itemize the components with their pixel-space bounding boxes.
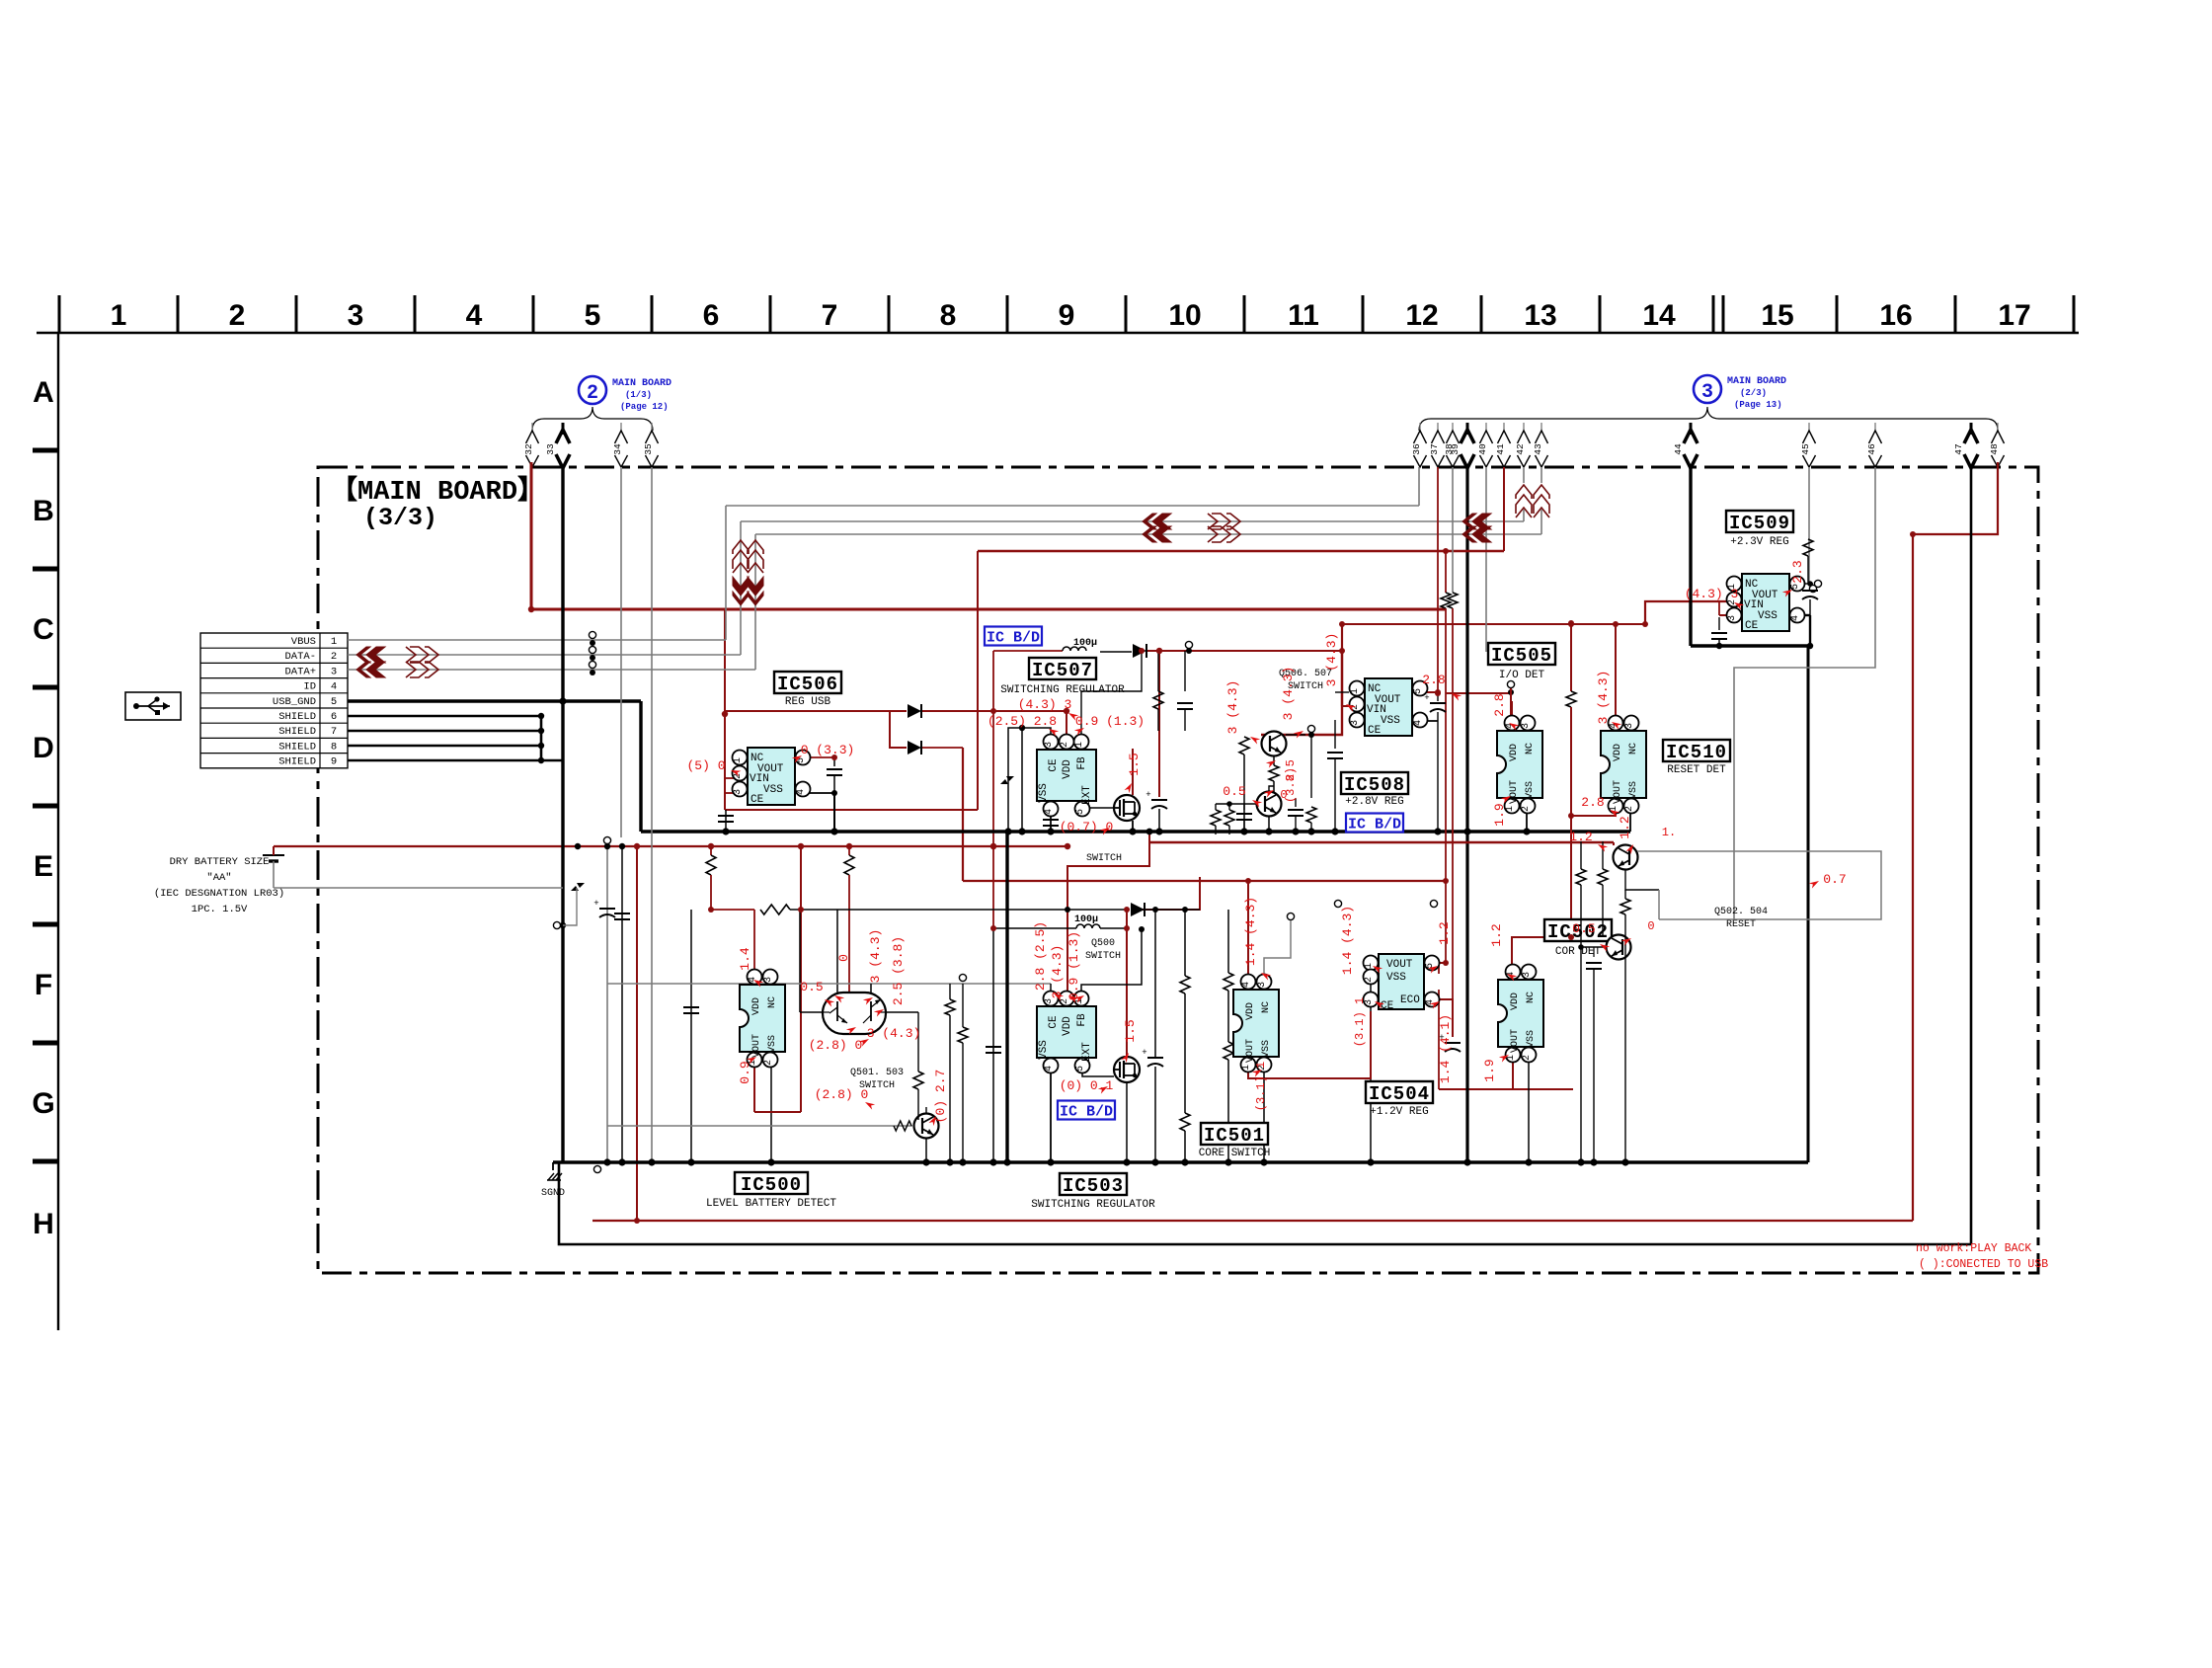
svg-text:CE: CE (1381, 1000, 1394, 1012)
dual transistor Q501/Q503 oval (823, 993, 886, 1034)
wire: red IC500 supply (710, 846, 712, 855)
svg-text:42: 42 (1515, 443, 1526, 455)
svg-text:(3.1) 1: (3.1) 1 (1353, 997, 1367, 1047)
svg-text:VSS: VSS (1758, 610, 1777, 622)
svg-text:VOUT: VOUT (1245, 1039, 1256, 1063)
svg-text:VDD: VDD (1613, 744, 1623, 761)
svg-text:VSS: VSS (1525, 781, 1536, 799)
svg-text:0: 0 (836, 954, 851, 962)
svg-text:CE: CE (750, 794, 764, 806)
svg-text:0.9: 0.9 (738, 1061, 752, 1083)
wire: red Q506 base (1261, 652, 1342, 735)
maroon chevrons DATA rows (366, 647, 385, 663)
svg-text:B: B (33, 495, 54, 527)
IC501 (1233, 990, 1279, 1057)
svg-text:Q501. 503: Q501. 503 (850, 1068, 904, 1078)
svg-text:36: 36 (1411, 443, 1422, 455)
svg-text:1PC. 1.5V: 1PC. 1.5V (192, 904, 248, 915)
wire: red IC504 area (1379, 962, 1446, 964)
svg-text:(3/3): (3/3) (363, 504, 437, 532)
svg-text:VBUS: VBUS (291, 636, 316, 648)
svg-text:Q500: Q500 (1091, 938, 1115, 949)
svg-text:ID: ID (303, 681, 316, 693)
svg-text:E: E (34, 850, 53, 883)
connectors group 3 : 36..48 (1419, 423, 1421, 433)
connectors group 2 : 32..35 (531, 423, 533, 433)
red bus y558 (978, 550, 1504, 552)
svg-text:(3.1) 1: (3.1) 1 (1254, 1062, 1268, 1111)
svg-text:SWITCHING REGULATOR: SWITCHING REGULATOR (1031, 1199, 1155, 1211)
wire: red battery bus (274, 845, 1066, 847)
gray net from IC509 area down (1874, 667, 1876, 669)
svg-text:5: 5 (585, 299, 601, 332)
IC502 (1498, 980, 1543, 1047)
svg-text:2: 2 (587, 382, 598, 405)
maroon chevrons top-center (733, 577, 749, 596)
svg-text:ECO: ECO (1400, 994, 1420, 1006)
svg-text:2: 2 (1521, 806, 1532, 812)
svg-text:8: 8 (331, 741, 337, 753)
svg-text:3: 3 (348, 299, 364, 332)
usb signal rows (348, 639, 726, 641)
conn36..43 stubs (1437, 467, 1439, 693)
gray B-row buses (1418, 467, 1420, 506)
svg-text:VSS: VSS (1038, 783, 1050, 803)
svg-text:1: 1 (1074, 742, 1085, 748)
svg-text:(2.8) 0: (2.8) 0 (815, 1087, 869, 1102)
svg-text:MAIN BOARD: MAIN BOARD (1727, 376, 1786, 387)
svg-text:CE: CE (1048, 758, 1060, 772)
wire: red IC502 area (1512, 937, 1571, 972)
wire: red IC501 area (1247, 881, 1249, 978)
svg-text:3: 3 (331, 666, 337, 677)
maroon chevrons mid-right (1152, 514, 1171, 529)
svg-text:IC510: IC510 (1666, 742, 1727, 763)
wire: 100u inductor line IC507 (1063, 647, 1086, 651)
svg-text:7: 7 (331, 726, 337, 738)
svg-text:VSS: VSS (1038, 1040, 1050, 1060)
page ref 3 (1694, 375, 1721, 403)
svg-text:VSS: VSS (1261, 1040, 1272, 1058)
main board border (318, 467, 2038, 1273)
Q502/Q504 transistors (1614, 845, 1638, 870)
svg-text:2.8: 2.8 (1492, 693, 1507, 716)
svg-text:+: + (1142, 1048, 1146, 1058)
mosfet Q (IC507) (1114, 795, 1140, 821)
svg-text:1: 1 (1364, 963, 1375, 969)
svg-text:C: C (33, 613, 54, 646)
svg-text:CE: CE (1048, 1015, 1060, 1029)
svg-text:7: 7 (822, 299, 838, 332)
svg-text:1.5: 1.5 (1123, 1019, 1138, 1042)
svg-text:(5) 0: (5) 0 (686, 758, 725, 773)
svg-text:VDD: VDD (1509, 744, 1520, 761)
svg-text:IC507: IC507 (1032, 660, 1093, 681)
svg-text:4: 4 (796, 789, 807, 795)
wire: diode at IC507 out (1133, 644, 1146, 658)
svg-text:1.4: 1.4 (738, 947, 752, 971)
thick switch vertical (1005, 832, 1008, 1162)
Q506/Q507 (1239, 737, 1249, 755)
svg-text:VSS: VSS (763, 784, 783, 796)
caps near Q506 top (1157, 651, 1159, 691)
svg-text:16: 16 (1879, 299, 1912, 332)
svg-text:NC: NC (1261, 1001, 1272, 1013)
IC507 pins (1008, 728, 1051, 832)
svg-text:2: 2 (1522, 1055, 1533, 1061)
wire: red right vertical to bottom (1912, 534, 1914, 1221)
svg-text:+2.8V REG: +2.8V REG (1345, 796, 1403, 808)
svg-text:3 (4.3): 3 (4.3) (1225, 680, 1240, 735)
conn34/35 stubs (620, 467, 622, 837)
svg-text:9: 9 (331, 756, 337, 768)
svg-text:F: F (35, 969, 52, 1001)
svg-text:46: 46 (1866, 443, 1877, 455)
IC505 wires (1507, 680, 1514, 687)
svg-text:1.2: 1.2 (1569, 830, 1592, 844)
svg-text:IC505: IC505 (1491, 645, 1552, 667)
y996 row (607, 983, 1051, 985)
wire: +5V red bus from conn32 (531, 462, 1446, 609)
wire: red inductor out / Q500 (992, 651, 994, 928)
svg-text:1.5: 1.5 (1127, 753, 1142, 775)
svg-text:1.: 1. (1662, 826, 1676, 839)
svg-text:2: 2 (1364, 977, 1375, 983)
Q500 net (993, 927, 1076, 929)
IC508 out (1414, 691, 1438, 693)
IC503 (1037, 1006, 1096, 1058)
svg-text:2.8: 2.8 (1581, 795, 1604, 810)
svg-text:CE: CE (1745, 620, 1759, 632)
svg-text:5: 5 (1075, 1066, 1086, 1072)
svg-text:2: 2 (1624, 806, 1635, 812)
IC505 (1497, 731, 1542, 798)
wire: red IC505 supply (1446, 692, 1512, 694)
svg-text:DATA+: DATA+ (284, 666, 316, 677)
svg-text:9: 9 (1059, 299, 1075, 332)
svg-text:CORE SWITCH: CORE SWITCH (1199, 1148, 1271, 1159)
wire: red IC506 VIN riser (724, 678, 726, 810)
IC509 wires (1803, 539, 1813, 556)
svg-text:DATA-: DATA- (284, 651, 316, 663)
gray x1471 riser (1452, 467, 1454, 593)
svg-text:1.2: 1.2 (1618, 816, 1632, 838)
svg-text:SHIELD: SHIELD (278, 756, 316, 768)
svg-text:DRY BATTERY SIZE: DRY BATTERY SIZE (170, 856, 270, 868)
svg-text:VDD: VDD (751, 997, 762, 1015)
svg-text:15: 15 (1761, 299, 1793, 332)
svg-text:3: 3 (1701, 381, 1713, 404)
svg-text:2: 2 (229, 299, 246, 332)
gray long L right (1808, 483, 1810, 485)
svg-text:3: 3 (1624, 723, 1635, 729)
svg-text:2.8: 2.8 (1422, 673, 1445, 687)
ground bus y=842 (641, 830, 1630, 834)
svg-text:IC501: IC501 (1204, 1125, 1265, 1147)
svg-text:IC503: IC503 (1063, 1175, 1124, 1197)
svg-text:IC504: IC504 (1369, 1083, 1430, 1105)
svg-text:EXT: EXT (1081, 785, 1093, 805)
IC510 (1601, 731, 1646, 798)
svg-text:3 (4.3): 3 (4.3) (867, 1026, 921, 1041)
svg-text:3 (4.3): 3 (4.3) (868, 929, 883, 984)
svg-text:VSS: VSS (1381, 715, 1400, 727)
svg-text:3 (4.3): 3 (4.3) (1324, 633, 1339, 687)
svg-text:IC B/D: IC B/D (1348, 816, 1401, 833)
svg-text:1.2: 1.2 (1437, 921, 1452, 944)
svg-text:(0) 0.1: (0) 0.1 (1060, 1078, 1114, 1093)
svg-text:+: + (593, 899, 598, 909)
IC508 (1365, 678, 1412, 736)
wire: red to IC509 VIN (1645, 601, 1727, 624)
svg-text:1.4 (4.3): 1.4 (4.3) (1243, 897, 1258, 966)
svg-text:1.4 (4.1): 1.4 (4.1) (1438, 1014, 1453, 1083)
svg-text:4: 4 (331, 681, 337, 693)
svg-text:33: 33 (545, 443, 556, 455)
svg-text:(Page 12): (Page 12) (620, 402, 669, 412)
svg-text:(2/3): (2/3) (1740, 388, 1767, 398)
IC504 (1379, 954, 1424, 1009)
svg-text:( ):CONECTED TO USB: ( ):CONECTED TO USB (1919, 1258, 2048, 1271)
svg-text:32: 32 (523, 443, 534, 455)
svg-text:3: 3 (1521, 723, 1532, 729)
IC506 out cap (831, 755, 837, 760)
svg-text:3 (4.3): 3 (4.3) (1596, 671, 1611, 725)
svg-text:REG USB: REG USB (785, 696, 831, 708)
thick gnd verticals (561, 467, 564, 1162)
IC510 wires (1571, 808, 1616, 816)
IC506 (748, 748, 795, 805)
svg-text:4: 4 (1044, 1066, 1055, 1072)
svg-text:2.5 (3.8): 2.5 (3.8) (891, 936, 906, 1005)
wire: red IC510 supply (1615, 624, 1617, 719)
svg-text:5: 5 (331, 696, 337, 708)
svg-text:0.9 (1.3): 0.9 (1.3) (1066, 931, 1081, 1000)
Q502 wiring (1149, 841, 1614, 843)
left column verticals (553, 921, 560, 928)
svg-text:3: 3 (1350, 720, 1361, 726)
svg-text:VDD: VDD (1510, 993, 1521, 1010)
svg-text:0.9 (1.3): 0.9 (1.3) (1075, 714, 1145, 729)
svg-text:39: 39 (1450, 443, 1461, 455)
svg-text:1: 1 (331, 636, 337, 648)
USB connector table (200, 633, 348, 768)
svg-text:CE: CE (1368, 725, 1382, 737)
IC B/D boxes (985, 627, 1042, 646)
wire: red IC507 supply (1066, 711, 1067, 736)
svg-text:RESET: RESET (1726, 919, 1756, 930)
IC509 (1742, 574, 1789, 631)
svg-text:2.8 (2.5): 2.8 (2.5) (1033, 921, 1048, 991)
svg-text:(4.3) 3: (4.3) 3 (1018, 697, 1072, 712)
svg-text:NC: NC (1628, 743, 1639, 755)
svg-text:1.2: 1.2 (1489, 923, 1504, 946)
svg-text:6: 6 (331, 711, 337, 723)
svg-text:(2.8) 0: (2.8) 0 (809, 1038, 863, 1053)
svg-text:3: 3 (1257, 982, 1268, 988)
svg-text:(4.3) 3: (4.3) 3 (1685, 587, 1739, 601)
caps on bus 842 (725, 810, 727, 832)
svg-text:4: 4 (1413, 720, 1424, 726)
svg-text:IC500: IC500 (741, 1174, 802, 1196)
svg-text:12: 12 (1405, 299, 1438, 332)
svg-text:1: 1 (1241, 1065, 1252, 1071)
svg-text:SHIELD: SHIELD (278, 711, 316, 723)
svg-text:VOUT: VOUT (1510, 1029, 1521, 1053)
wire: red IC508 VIN (1341, 624, 1343, 706)
svg-text:G: G (32, 1087, 54, 1120)
svg-text:0 (3.3): 0 (3.3) (801, 743, 855, 757)
svg-text:47: 47 (1953, 443, 1964, 454)
svg-text:2.3: 2.3 (1790, 560, 1805, 583)
svg-text:40: 40 (1477, 443, 1488, 455)
svg-text:VOUT: VOUT (1509, 780, 1520, 804)
diode D pair near IC506 (908, 704, 921, 718)
svg-text:41: 41 (1495, 443, 1506, 455)
svg-text:3: 3 (733, 789, 744, 795)
svg-text:IC506: IC506 (777, 674, 838, 695)
svg-text:0.5: 0.5 (1223, 784, 1245, 799)
svg-text:10: 10 (1168, 299, 1201, 332)
svg-text:EXT: EXT (1081, 1042, 1093, 1062)
svg-text:14: 14 (1642, 299, 1676, 332)
svg-text:35: 35 (643, 443, 654, 455)
svg-text:2: 2 (331, 651, 337, 663)
svg-text:0.5: 0.5 (1572, 921, 1595, 936)
gnd risers (1807, 646, 1810, 1162)
IC508 pins (1335, 691, 1349, 693)
svg-text:45: 45 (1800, 443, 1811, 455)
svg-text:NC: NC (1525, 743, 1536, 755)
svg-text:VSS: VSS (1386, 972, 1406, 984)
svg-text:13: 13 (1524, 299, 1556, 332)
svg-text:IC B/D: IC B/D (1060, 1103, 1113, 1120)
page ref 2 (579, 376, 606, 404)
wire: red y820 link (725, 809, 978, 811)
wire: red conn48 down (1913, 462, 1998, 534)
svg-text:FB: FB (1076, 1013, 1088, 1027)
IC507 (1037, 750, 1096, 801)
svg-text:VSS: VSS (1628, 781, 1639, 799)
svg-text:3: 3 (1044, 742, 1055, 748)
svg-text:8: 8 (940, 299, 957, 332)
conn47 black loop (1970, 467, 1973, 1244)
row scale (57, 333, 59, 1330)
svg-text:+: + (1145, 790, 1150, 800)
svg-text:11: 11 (1288, 299, 1319, 332)
svg-text:VDD: VDD (1245, 1002, 1256, 1020)
IC503 vss/ext (1050, 1066, 1052, 1162)
svg-text:0: 0 (1647, 919, 1654, 933)
svg-text:1: 1 (1350, 688, 1361, 694)
svg-text:SWITCH: SWITCH (1085, 951, 1121, 962)
svg-text:0.5: 0.5 (800, 980, 823, 994)
svg-text:VDD: VDD (1062, 759, 1073, 779)
svg-text:1.9: 1.9 (1482, 1059, 1497, 1081)
svg-text:4: 4 (1241, 982, 1252, 988)
svg-text:5: 5 (1790, 584, 1801, 590)
wire: red bottom return (592, 1220, 1913, 1222)
svg-text:SHIELD: SHIELD (278, 741, 316, 753)
svg-text:VSS: VSS (767, 1035, 778, 1053)
svg-text:(Page 13): (Page 13) (1734, 400, 1782, 410)
svg-text:100μ: 100μ (1073, 638, 1097, 649)
svg-text:RESET DET: RESET DET (1667, 764, 1726, 776)
svg-text:VSS: VSS (1526, 1030, 1537, 1048)
svg-text:IC509: IC509 (1729, 513, 1790, 534)
svg-text:SWITCHING REGULATOR: SWITCHING REGULATOR (1000, 684, 1125, 696)
svg-text:34: 34 (612, 443, 623, 455)
red x1464 riser (1445, 551, 1447, 593)
svg-text:(2.5) 2.8: (2.5) 2.8 (987, 714, 1057, 729)
IC503 FB loop (1081, 929, 1142, 998)
svg-text:2: 2 (763, 1060, 774, 1066)
wire: red IC503 VDD (1067, 842, 1149, 998)
svg-text:"AA": "AA" (206, 872, 231, 884)
svg-text:+1.2V REG: +1.2V REG (1370, 1106, 1428, 1118)
wire: red bus y632 (1342, 623, 1645, 625)
battery lower rail (274, 887, 563, 889)
svg-text:37: 37 (1429, 443, 1440, 454)
svg-text:+2.3V REG: +2.3V REG (1730, 536, 1788, 548)
wire: red battery branch down (636, 846, 638, 1221)
svg-text:FB: FB (1076, 756, 1088, 770)
svg-text:LEVEL BATTERY DETECT: LEVEL BATTERY DETECT (706, 1198, 836, 1210)
svg-text:4: 4 (1044, 809, 1055, 815)
USB icon (125, 692, 181, 720)
svg-text:H: H (33, 1208, 54, 1240)
svg-text:SGND: SGND (541, 1188, 565, 1199)
IC506 wires (736, 756, 752, 758)
svg-text:0: 0 (1280, 788, 1287, 802)
svg-text:1.9: 1.9 (1492, 803, 1507, 826)
wire: red IC509 CE branch (1719, 614, 1726, 616)
svg-text:3: 3 (1522, 972, 1533, 978)
svg-text:100μ: 100μ (1074, 914, 1098, 925)
svg-text:3 (4.3): 3 (4.3) (1281, 667, 1296, 721)
svg-text:2: 2 (1060, 742, 1070, 748)
svg-text:1: 1 (733, 757, 744, 763)
svg-text:IC B/D: IC B/D (987, 629, 1040, 646)
IC507 area verticals (1158, 651, 1160, 797)
svg-text:2: 2 (733, 773, 744, 779)
svg-text:43: 43 (1533, 443, 1543, 455)
usb gnd/shield (348, 699, 641, 702)
svg-text:Q502. 504: Q502. 504 (1714, 907, 1768, 917)
svg-text:(1/3): (1/3) (625, 390, 652, 400)
svg-text:(IEC DESGNATION LR03): (IEC DESGNATION LR03) (154, 888, 284, 900)
svg-text:4: 4 (466, 299, 483, 332)
svg-text:MAIN BOARD: MAIN BOARD (612, 378, 671, 389)
svg-text:44: 44 (1673, 443, 1684, 455)
svg-text:48: 48 (1989, 443, 2000, 455)
svg-text:A: A (33, 376, 54, 409)
svg-text:VDD: VDD (1062, 1016, 1073, 1036)
svg-text:3 (4.3): 3 (4.3) (1050, 945, 1065, 999)
svg-text:VOUT: VOUT (1613, 780, 1623, 804)
svg-text:3: 3 (763, 977, 774, 983)
svg-text:5: 5 (1075, 809, 1086, 815)
svg-text:IC508: IC508 (1344, 774, 1405, 796)
mosfet Q500 (1114, 1057, 1140, 1082)
IC500 region verticals (690, 910, 692, 1162)
svg-text:SWITCH: SWITCH (1086, 853, 1122, 864)
svg-text:D: D (33, 732, 54, 764)
svg-text:6: 6 (703, 299, 720, 332)
ground bus y=1177 (553, 1160, 1808, 1164)
svg-text:USB_GND: USB_GND (273, 696, 316, 708)
svg-text:1.4 (4.3): 1.4 (4.3) (1340, 906, 1355, 975)
